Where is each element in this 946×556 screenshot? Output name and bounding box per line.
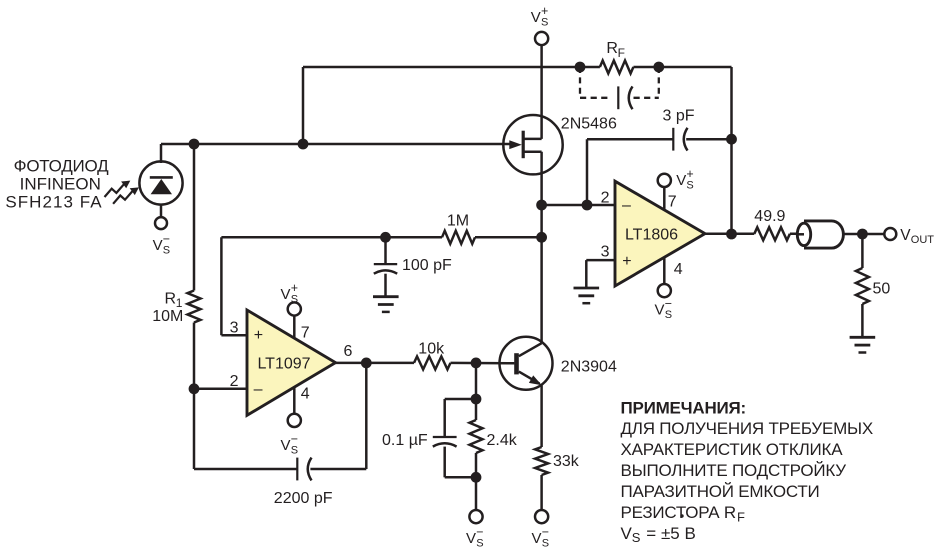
svg-text:F: F [737, 510, 745, 525]
svg-text:S: S [291, 294, 298, 306]
svg-text:R: R [606, 40, 618, 57]
svg-text:ПРИМЕЧАНИЯ:: ПРИМЕЧАНИЯ: [621, 398, 746, 417]
svg-text:R: R [165, 290, 177, 307]
svg-text:ХАРАКТЕРИСТИК ОТКЛИКА: ХАРАКТЕРИСТИК ОТКЛИКА [621, 440, 844, 459]
svg-text:–: – [254, 381, 263, 398]
svg-text:V: V [281, 437, 291, 454]
svg-text:ДЛЯ ПОЛУЧЕНИЯ ТРЕБУЕМЫХ: ДЛЯ ПОЛУЧЕНИЯ ТРЕБУЕМЫХ [621, 419, 874, 438]
svg-text:V: V [621, 524, 633, 543]
svg-text:4: 4 [301, 385, 310, 402]
svg-text:1M: 1M [447, 212, 469, 229]
svg-text:РЕЗИСТОРА R: РЕЗИСТОРА R [621, 503, 736, 522]
svg-text:ВЫПОЛНИТЕ ПОДСТРОЙКУ: ВЫПОЛНИТЕ ПОДСТРОЙКУ [621, 461, 847, 480]
svg-text:S: S [542, 538, 549, 550]
svg-text:V: V [900, 227, 911, 244]
svg-text:−: − [291, 432, 298, 446]
svg-text:33k: 33k [553, 453, 580, 470]
svg-text:+: + [291, 281, 298, 295]
svg-text:+: + [254, 327, 263, 344]
svg-text:49.9: 49.9 [754, 208, 785, 225]
svg-text:2: 2 [601, 190, 610, 207]
svg-text:2N3904: 2N3904 [561, 359, 617, 376]
svg-text:V: V [531, 9, 541, 26]
svg-text:6: 6 [344, 343, 353, 360]
svg-text:S: S [163, 245, 170, 257]
svg-text:= ±5 В: = ±5 В [646, 524, 696, 543]
svg-text:LT1806: LT1806 [625, 227, 678, 244]
svg-text:S: S [476, 538, 483, 550]
svg-text:V: V [532, 530, 542, 547]
svg-text:3: 3 [230, 319, 239, 336]
svg-text:3: 3 [601, 244, 610, 261]
svg-text:2: 2 [230, 373, 239, 390]
svg-text:V: V [466, 530, 476, 547]
svg-text:ФОТОДИОД: ФОТОДИОД [14, 156, 109, 175]
svg-text:7: 7 [301, 325, 310, 342]
svg-text:2.4k: 2.4k [487, 432, 518, 449]
svg-text:V: V [153, 237, 163, 254]
svg-text:V: V [655, 302, 665, 319]
svg-text:–: – [622, 197, 631, 214]
svg-text:−: − [163, 232, 170, 246]
svg-text:SFH213 FA: SFH213 FA [5, 193, 102, 212]
svg-text:S: S [686, 180, 693, 192]
svg-text:2N5486: 2N5486 [561, 115, 617, 132]
svg-text:100 pF: 100 pF [402, 257, 452, 274]
svg-text:10M: 10M [152, 308, 183, 325]
svg-text:2200 pF: 2200 pF [274, 490, 333, 507]
svg-text:S: S [291, 445, 298, 457]
svg-text:−: − [665, 297, 672, 311]
svg-text:S: S [665, 309, 672, 321]
svg-text:+: + [686, 167, 693, 181]
svg-text:+: + [541, 4, 548, 18]
svg-text:OUT: OUT [911, 234, 935, 246]
svg-text:V: V [676, 172, 686, 189]
svg-text:7: 7 [668, 193, 677, 210]
svg-text:ПАРАЗИТНОЙ ЕМКОСТИ: ПАРАЗИТНОЙ ЕМКОСТИ [621, 482, 820, 501]
svg-text:0.1 µF: 0.1 µF [382, 432, 428, 449]
svg-text:3 pF: 3 pF [663, 107, 695, 124]
svg-text:INFINEON: INFINEON [20, 174, 101, 193]
svg-text:50: 50 [873, 280, 891, 297]
svg-text:−: − [476, 525, 483, 539]
svg-text:+: + [622, 253, 631, 270]
svg-text:10k: 10k [418, 340, 445, 357]
svg-text:S: S [541, 17, 548, 29]
svg-text:V: V [281, 286, 291, 303]
svg-text:−: − [542, 525, 549, 539]
svg-text:F: F [618, 46, 625, 60]
svg-text:4: 4 [674, 261, 683, 278]
svg-text:S: S [632, 530, 641, 545]
svg-text:LT1097: LT1097 [257, 356, 310, 373]
